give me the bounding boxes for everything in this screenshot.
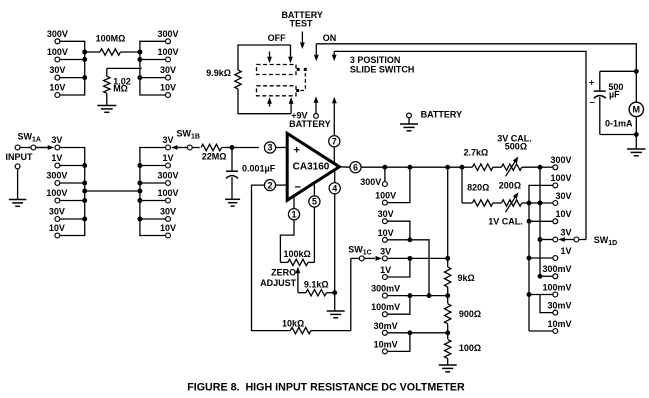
node A junction (pin3 net) [230, 145, 259, 150]
node: top-left input divider left bus [57, 41, 87, 95]
svg-text:30V: 30V [160, 207, 176, 217]
resistor 100&#937; [445, 333, 482, 365]
terminal +9V battery [289, 96, 331, 129]
label 3 POSITION SLIDE SWITCH [350, 55, 415, 74]
junction (meter bottom) [634, 132, 639, 149]
svg-text:10V: 10V [49, 223, 65, 233]
terminal 10V (SW1A column) [49, 223, 65, 238]
svg-text:300mV: 300mV [371, 284, 400, 294]
resistor 9.1k&#937; [298, 280, 335, 296]
wire: 30V elbow (SW1C col) [388, 221, 413, 242]
svg-text:10kΩ: 10kΩ [282, 319, 304, 329]
svg-text:3V: 3V [162, 135, 173, 145]
svg-text:FIGURE 8. HIGH INPUT RESISTAN: FIGURE 8. HIGH INPUT RESISTANCE DC VOLTM… [187, 381, 465, 393]
terminal 1V (SW1B column) [162, 153, 173, 168]
op-amp U1 CA3160 [287, 133, 339, 200]
terminal 100V (SW1D column) [550, 173, 571, 188]
svg-text:300mV: 300mV [542, 264, 571, 274]
svg-text:30mV: 30mV [547, 300, 571, 310]
label ZERO ADJUST [260, 268, 297, 288]
svg-text:30V: 30V [378, 209, 394, 219]
svg-text:9.1kΩ: 9.1kΩ [304, 280, 329, 290]
terminal 10V (SW1C column) [378, 228, 394, 242]
svg-text:BATTERY: BATTERY [421, 110, 463, 120]
wire: 100V elbow (SW1C col) [388, 167, 410, 202]
wire: 10V row to divider [388, 240, 432, 298]
terminal 300mV (SW1D column) [542, 264, 571, 279]
wire: pin7 supply riser [332, 97, 337, 136]
capacitor 500&#181;F [589, 71, 636, 134]
svg-text:100Ω: 100Ω [459, 343, 481, 353]
svg-text:INPUT: INPUT [6, 152, 34, 162]
terminal 10V (left, top divider) [49, 83, 65, 98]
label OFF [268, 33, 286, 43]
wire: output bus [382, 165, 464, 170]
label ON [323, 33, 337, 43]
resistor 900&#937; [445, 296, 482, 333]
resistor 1.02M&#937; [104, 68, 142, 105]
svg-text:OFF: OFF [268, 33, 286, 43]
svg-text:MΩ: MΩ [113, 84, 128, 94]
terminal 1V (SW1A column) [51, 153, 62, 168]
terminal battery negative [407, 113, 412, 124]
svg-text:10mV: 10mV [547, 319, 571, 329]
capacitor 0.001&#181;F [226, 148, 276, 200]
terminal 10V (right, top divider) [160, 83, 176, 98]
terminal 10mV (SW1D column) [547, 319, 571, 334]
resistor 9k&#937; [445, 258, 475, 295]
ground (divider chain) [439, 365, 457, 372]
terminal 3V (SW1D column) [553, 227, 572, 242]
svg-text:100V: 100V [375, 191, 396, 201]
label INPUT [6, 152, 34, 162]
pin 7 (V+) [329, 136, 340, 164]
label SW1B [177, 129, 200, 141]
terminal 1V (SW1C column) [380, 265, 391, 279]
svg-text:300V: 300V [360, 177, 381, 187]
wire: 300V stub (SW1C col) [384, 167, 386, 181]
svg-text:300V: 300V [157, 171, 178, 181]
wire: 3V row (SW1C col) [388, 256, 450, 261]
svg-text:3V: 3V [380, 246, 391, 256]
pin 1 (offset null) [280, 196, 299, 262]
label BATTERY (gnd) [421, 110, 463, 120]
svg-text:SW1D: SW1D [594, 235, 617, 247]
wire: 300mV row (SW1D) [540, 275, 553, 277]
label SW1C [348, 244, 371, 256]
potentiometer 200&#937; (1V CAL) [499, 181, 529, 212]
wire: pin 2 feedback run [252, 185, 291, 331]
wire: ON position to SW1D (net V2) [332, 51, 586, 239]
wire: 10V row (SW1D) [529, 220, 553, 222]
svg-text:SW1B: SW1B [177, 129, 200, 141]
ground (0.001uF) [225, 199, 240, 206]
terminal 1V (SW1D column) [553, 246, 572, 261]
terminal 300V (left, top divider) [47, 29, 68, 44]
terminal 300V (SW1A column) [46, 171, 67, 186]
svg-text:7: 7 [332, 136, 337, 146]
terminal 30V (SW1B column) [160, 207, 176, 222]
switch S1 slide-switch dashed body [257, 65, 307, 96]
terminal 3V (SW1C column) [380, 246, 391, 260]
svg-text:1: 1 [291, 209, 296, 219]
terminal INPUT ground leg [15, 164, 20, 200]
svg-text:900Ω: 900Ω [459, 309, 481, 319]
switch contact arrow (OFF top right) [288, 45, 293, 63]
svg-text:1V: 1V [162, 153, 173, 163]
ground (pin 4) [327, 311, 345, 318]
wire: 100mV elbow (SW1C col) [388, 296, 410, 315]
wire: 3V row (SW1D) [540, 239, 553, 241]
switch SW1C wiper [359, 256, 382, 261]
svg-text:300V: 300V [157, 29, 178, 39]
svg-text:1V CAL.: 1V CAL. [488, 216, 523, 226]
svg-text:M: M [633, 105, 641, 115]
terminal 3V (SW1A column) [51, 135, 62, 150]
terminal 300V (SW1C column) [360, 177, 387, 187]
wire: 10k to SW1C wiper [351, 258, 359, 330]
wire: 1V elbow (SW1C col) [388, 258, 410, 277]
svg-text:4: 4 [332, 184, 337, 194]
svg-text:10V: 10V [555, 209, 571, 219]
terminal 3V (SW1B column) [162, 135, 173, 150]
terminal 30V (SW1D column) [553, 191, 572, 206]
svg-text:500Ω: 500Ω [505, 142, 527, 152]
svg-text:30V: 30V [555, 191, 571, 201]
svg-text:2: 2 [267, 180, 272, 190]
terminal 300V (SW1D column) [550, 155, 571, 170]
resistor 100M&#937; [85, 34, 140, 56]
switch contact arrow (OFF top left) [267, 52, 272, 64]
svg-text:300V: 300V [47, 29, 68, 39]
svg-text:3V: 3V [51, 135, 62, 145]
svg-text:100mV: 100mV [542, 282, 571, 292]
svg-text:+: + [589, 78, 594, 88]
svg-text:100V: 100V [47, 47, 68, 57]
svg-text:30V: 30V [49, 207, 65, 217]
terminal 30V (right, top divider) [160, 65, 176, 80]
node: SW1A range bus [57, 148, 87, 236]
svg-text:3: 3 [267, 143, 272, 153]
node: top-left divider right bus [137, 41, 168, 95]
svg-text:µF: µF [609, 90, 620, 100]
terminal 100V (left, top divider) [47, 47, 68, 62]
svg-text:−: − [590, 98, 595, 108]
svg-text:10V: 10V [49, 83, 65, 93]
net 3V-CAL vertical [538, 167, 543, 279]
junction (meter top) [634, 69, 639, 74]
switch contact arrow (bottom right) [289, 97, 294, 114]
svg-text:6: 6 [353, 162, 358, 172]
terminal 10V (SW1D column) [553, 209, 572, 224]
switch SW1D wiper [558, 237, 586, 242]
svg-text:SLIDE SWITCH: SLIDE SWITCH [350, 65, 415, 75]
terminal 100mV (SW1D column) [542, 282, 571, 297]
wire: bus crossbar [85, 190, 140, 192]
terminal 10V (SW1B column) [160, 223, 176, 238]
svg-text:TEST: TEST [289, 19, 313, 29]
terminal 300mV (SW1C column) [371, 284, 400, 298]
svg-text:22MΩ: 22MΩ [202, 152, 227, 162]
svg-text:200Ω: 200Ω [499, 181, 521, 191]
svg-text:10V: 10V [160, 223, 176, 233]
potentiometer 100k&#937; zero adjust [280, 249, 314, 293]
svg-text:9kΩ: 9kΩ [458, 273, 475, 283]
svg-text:30V: 30V [160, 65, 176, 75]
svg-text:300V: 300V [46, 171, 67, 181]
svg-text:100V: 100V [550, 173, 571, 183]
pin 2 (inverting input) [264, 180, 287, 191]
terminal 30mV (SW1D column) [547, 300, 571, 315]
wire: 100mV row (SW1D) [529, 294, 553, 296]
ground (1.02M) [97, 106, 116, 113]
terminal 30V (left, top divider) [49, 65, 65, 80]
svg-text:300V: 300V [550, 155, 571, 165]
svg-text:CA3160: CA3160 [293, 162, 330, 173]
switch SW1B wiper [171, 145, 200, 150]
ground (input) [9, 200, 27, 207]
svg-text:0.001µF: 0.001µF [242, 164, 276, 174]
terminal 100V (SW1B column) [157, 188, 178, 203]
junction (9.1k to pin4 net) [332, 290, 337, 295]
terminal 100V (SW1C column) [375, 191, 396, 205]
svg-text:ZERO: ZERO [271, 268, 296, 278]
label 1V CAL. [488, 216, 523, 226]
svg-text:BATTERY: BATTERY [289, 119, 331, 129]
resistor 9.9k&#937; [206, 45, 291, 114]
wire: ON position to meter (net V1) [314, 44, 636, 72]
svg-text:1V: 1V [51, 153, 62, 163]
wire: 30mV row (SW1C col) [388, 330, 450, 335]
terminal 10mV (SW1C column) [374, 339, 398, 353]
caption FIGURE 8 [187, 381, 465, 393]
resistor 22M&#937; [201, 144, 232, 161]
net 1V-CAL vertical [527, 201, 532, 331]
label SW1A [18, 132, 41, 144]
meter M1 0-1mA [605, 71, 644, 134]
svg-text:ADJUST: ADJUST [260, 278, 297, 288]
svg-text:2.7kΩ: 2.7kΩ [464, 148, 489, 158]
svg-text:+: + [294, 145, 300, 157]
svg-text:100kΩ: 100kΩ [284, 249, 311, 259]
svg-text:SW1A: SW1A [18, 132, 41, 144]
svg-text:1V: 1V [380, 265, 391, 275]
switch contact arrow (bottom left) [267, 97, 272, 106]
wire: 10mV row (SW1D) [529, 330, 553, 332]
svg-text:100MΩ: 100MΩ [96, 34, 126, 44]
svg-text:0-1mA: 0-1mA [605, 119, 633, 129]
svg-text:3V: 3V [560, 227, 571, 237]
node: SW1B range bus [137, 148, 168, 236]
svg-text:100V: 100V [157, 188, 178, 198]
terminal 30V (SW1C column) [378, 209, 394, 223]
svg-text:10V: 10V [160, 83, 176, 93]
svg-text:10mV: 10mV [374, 339, 398, 349]
pin 6 (output) [339, 162, 385, 173]
svg-text:100V: 100V [46, 188, 67, 198]
svg-text:5: 5 [312, 197, 317, 207]
wire: 30mV elbow (SW1D) [540, 295, 553, 313]
wire: 100V elbow (SW1D) [529, 185, 553, 203]
terminal 100V (SW1A column) [46, 188, 67, 203]
svg-text:100mV: 100mV [371, 302, 400, 312]
svg-text:30V: 30V [49, 65, 65, 75]
svg-text:30mV: 30mV [374, 321, 398, 331]
wire: 30V row (SW1D) [529, 202, 553, 204]
potentiometer 500&#937; (3V CAL) [497, 133, 540, 176]
terminal 300V (SW1B column) [157, 171, 178, 186]
wire: 1V row (SW1D) [529, 257, 553, 259]
resistor 820&#937; [462, 167, 502, 206]
resistor 10k&#937; [282, 319, 351, 334]
label BATTERY TEST [281, 10, 323, 28]
svg-text:9.9kΩ: 9.9kΩ [206, 68, 231, 78]
wire: output to 9k chain [447, 167, 449, 258]
pin 3 (non-inverting input) [264, 142, 287, 153]
svg-text:−: − [295, 182, 301, 194]
svg-text:ON: ON [323, 33, 337, 43]
svg-text:1V: 1V [560, 246, 571, 256]
resistor 2.7k&#937; [462, 148, 502, 171]
wire: 10mV elbow (SW1C col) [388, 333, 410, 352]
switch SW1A wiper and INPUT terminal [15, 145, 54, 150]
svg-text:10V: 10V [378, 228, 394, 238]
terminal 30mV (SW1C column) [374, 321, 398, 335]
terminal 100mV (SW1C column) [371, 302, 400, 316]
ground (meter) [627, 149, 645, 156]
label SW1D [594, 235, 617, 247]
terminal 100V (right, top divider) [157, 47, 178, 62]
pin 4 (V-) [329, 170, 340, 311]
svg-text:100V: 100V [157, 47, 178, 57]
wire: 300mV row (SW1C col) [388, 293, 450, 298]
svg-text:SW1C: SW1C [348, 244, 371, 256]
junction (3V CAL net top) [538, 165, 553, 170]
pin 5 (strobe) [309, 183, 320, 263]
terminal 300V (right, top divider) [157, 29, 178, 44]
ground (battery) [400, 124, 418, 131]
battery-test position arrow [300, 32, 305, 50]
terminal 30V (SW1A column) [49, 207, 65, 222]
svg-text:820Ω: 820Ω [467, 183, 489, 193]
